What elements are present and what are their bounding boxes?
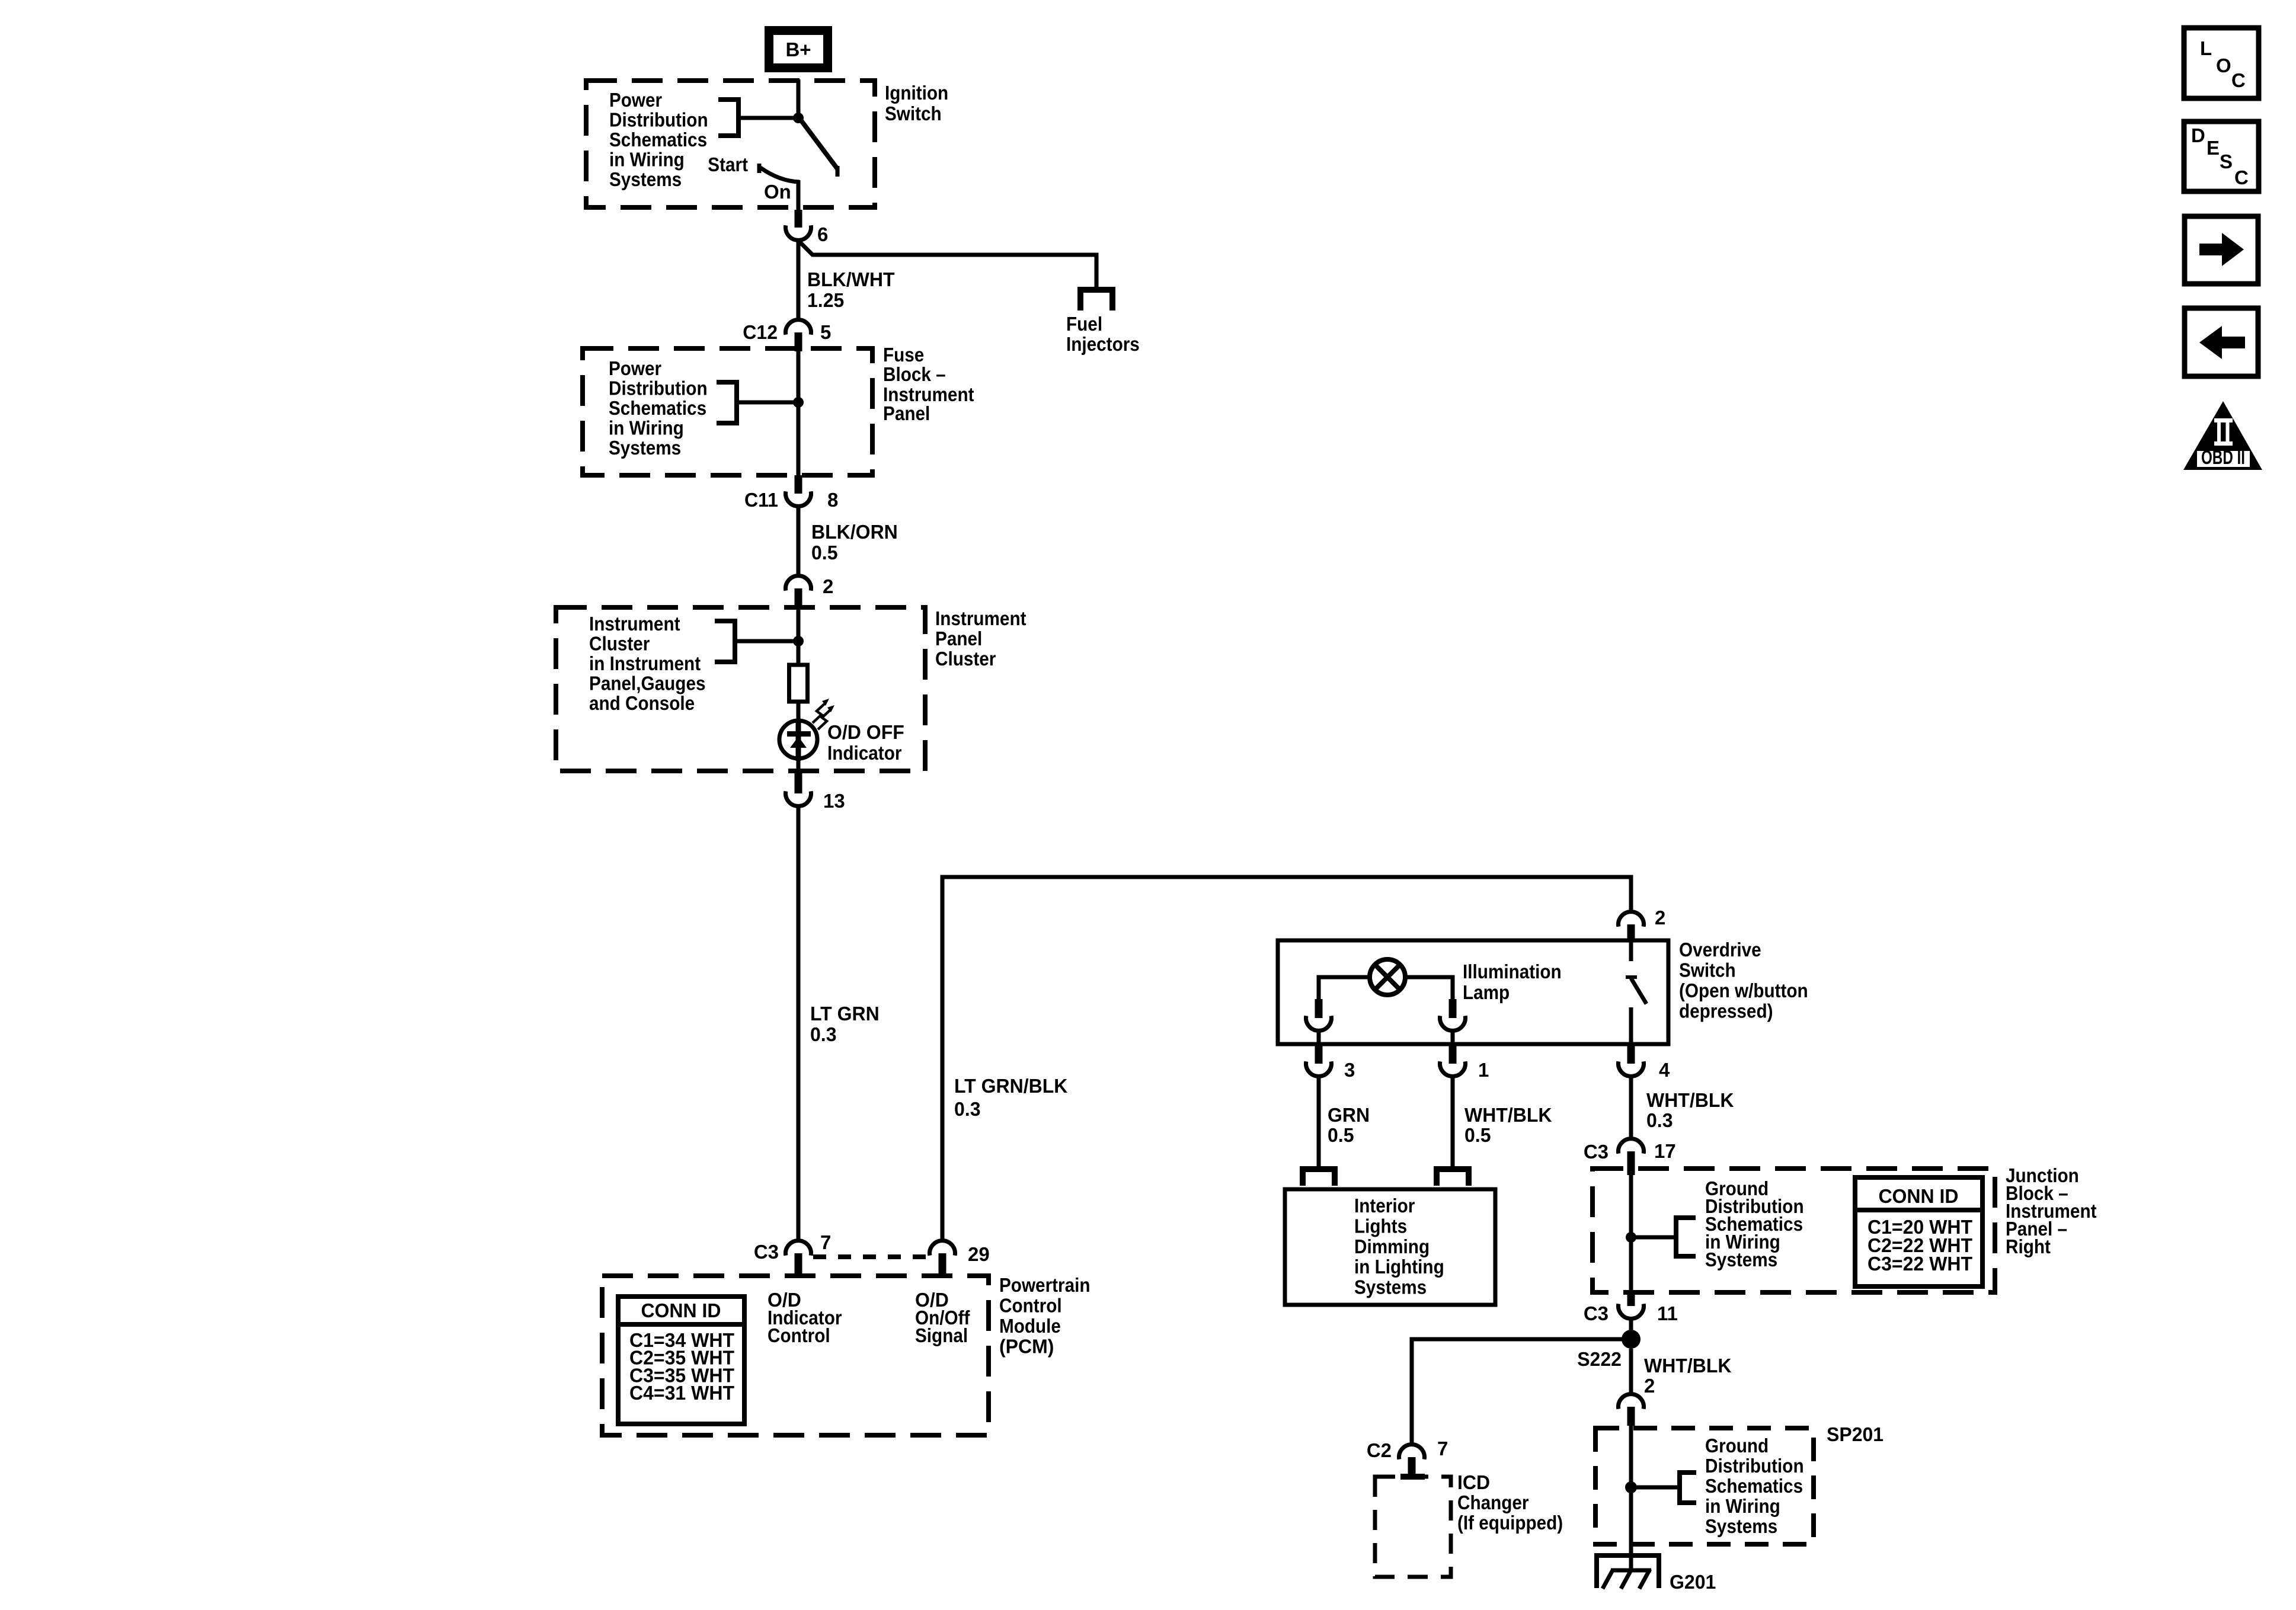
svg-text:in Instrument: in Instrument [589, 652, 701, 674]
label O/D On/Off Signal [915, 1289, 970, 1346]
ICD changer component box [1375, 1477, 1451, 1577]
lamp wiring to internal terminals [1319, 977, 1453, 999]
svg-text:Changer: Changer [1457, 1491, 1529, 1513]
svg-text:G201: G201 [1670, 1571, 1716, 1593]
svg-text:Switch: Switch [885, 103, 942, 124]
wire junction to bracket (SP201) [1631, 1486, 1680, 1490]
CONN ID table (PCM) [618, 1297, 744, 1424]
svg-text:Injectors: Injectors [1066, 333, 1140, 355]
wire BLK/ORN 0.5 to instrument cluster [797, 507, 801, 575]
svg-text:8: 8 [827, 489, 838, 511]
dashed link between pin 7 and pin 29 [813, 1254, 928, 1259]
junction dot (SP201) [1625, 1481, 1637, 1493]
svg-text:2: 2 [1655, 907, 1665, 929]
svg-text:D: D [2191, 124, 2205, 146]
svg-text:ICD: ICD [1457, 1471, 1490, 1493]
svg-text:Start: Start [708, 153, 748, 175]
svg-text:Module: Module [999, 1315, 1061, 1337]
svg-text:Instrument: Instrument [935, 607, 1027, 629]
svg-text:(If equipped): (If equipped) [1457, 1512, 1563, 1534]
icon DESC [2184, 121, 2259, 191]
svg-text:C3: C3 [1584, 1141, 1609, 1163]
wire LT GRN 0.3 from cluster to PCM [797, 806, 801, 1241]
svg-text:1.25: 1.25 [807, 289, 844, 311]
label O/D Indicator Control [768, 1289, 842, 1346]
power symbol B+ (battery feed) [765, 26, 832, 72]
svg-text:Panel,Gauges: Panel,Gauges [589, 673, 706, 694]
svg-text:in Wiring: in Wiring [609, 149, 685, 171]
start position arc [759, 164, 800, 182]
svg-text:0.5: 0.5 [1464, 1124, 1491, 1146]
svg-text:Illumination: Illumination [1463, 961, 1562, 982]
ignition switch blade [800, 119, 837, 177]
svg-text:C3: C3 [1584, 1302, 1609, 1324]
svg-text:C: C [2234, 167, 2249, 188]
reference text Ground Distribution Schematics in Wiring Systems (SP201) [1705, 1435, 1804, 1537]
svg-text:WHT/BLK: WHT/BLK [1464, 1104, 1552, 1126]
label Fuse Block - Instrument Panel [883, 344, 974, 424]
svg-text:(Open w/button: (Open w/button [1679, 980, 1808, 1001]
wire label BLK/ORN 0.5 [811, 521, 898, 564]
icon LOC [2184, 28, 2259, 98]
svg-text:Distribution: Distribution [1705, 1455, 1804, 1477]
svg-text:O/D OFF: O/D OFF [827, 721, 904, 743]
wire label LT GRN 0.3 [810, 1003, 880, 1045]
svg-text:Systems: Systems [609, 437, 681, 459]
svg-text:in Wiring: in Wiring [609, 417, 684, 439]
connector C2 pin 7 (ICD changer) [1399, 1445, 1425, 1480]
svg-text:13: 13 [823, 790, 845, 812]
junction block - instrument panel - right component box [1593, 1169, 1995, 1292]
svg-text:WHT/BLK: WHT/BLK [1644, 1355, 1732, 1377]
overdrive switch / illumination lamp component box [1278, 940, 1668, 1044]
switch pivot junction [793, 113, 804, 123]
svg-text:and Console: and Console [589, 692, 695, 714]
icon forward arrow [2185, 216, 2258, 284]
svg-text:Control: Control [768, 1324, 830, 1346]
svg-text:Cluster: Cluster [935, 648, 996, 670]
connector pin 2 (SP201 input) [1619, 1394, 1644, 1426]
wire through junction block [1629, 1175, 1633, 1294]
svg-text:29: 29 [968, 1243, 990, 1265]
svg-text:Systems: Systems [1705, 1515, 1777, 1537]
svg-text:On: On [764, 181, 791, 203]
svg-text:6: 6 [817, 223, 828, 245]
interior lights dimming component box [1285, 1189, 1495, 1305]
svg-text:in Lighting: in Lighting [1354, 1256, 1444, 1278]
wire label WHT/BLK 0.3 [1646, 1089, 1734, 1131]
svg-text:Distribution: Distribution [609, 109, 708, 131]
overdrive switch contacts and blade [1626, 940, 1646, 1044]
svg-text:0.5: 0.5 [1328, 1124, 1354, 1146]
svg-text:S: S [2220, 151, 2233, 172]
svg-text:7: 7 [1437, 1438, 1448, 1459]
wire label LT GRN/BLK 0.3 [954, 1075, 1068, 1120]
wire bracket to cluster wire [735, 639, 798, 644]
wire WHT/BLK 0.5 from pin 1 to interior lights dimming [1451, 1076, 1455, 1166]
svg-text:C4=31 WHT: C4=31 WHT [629, 1382, 734, 1404]
connector pin 6 (ignition switch output) [786, 210, 811, 240]
label Illumination Lamp [1463, 961, 1562, 1003]
svg-text:11: 11 [1657, 1302, 1678, 1324]
svg-text:E: E [2207, 137, 2220, 159]
connector pin 29 (O/D on/off signal input to PCM) [930, 1241, 955, 1275]
wire junction to bracket [1631, 1235, 1676, 1240]
reference bracket (fuse block power distribution) [717, 382, 737, 423]
wire LED to connector 13 [797, 761, 801, 772]
svg-text:C2: C2 [1367, 1439, 1392, 1461]
svg-text:Fuse: Fuse [883, 344, 924, 366]
label Fuel Injectors [1066, 313, 1140, 355]
svg-text:Fuel: Fuel [1066, 313, 1102, 335]
wire through SP201 [1629, 1426, 1633, 1570]
fuse block - instrument panel component box [583, 348, 872, 475]
svg-text:Cluster: Cluster [589, 633, 650, 655]
SP201 splice pack component box [1595, 1428, 1814, 1544]
label Instrument Panel Cluster [935, 607, 1027, 670]
ignition switch component box [586, 81, 875, 207]
svg-text:0.3: 0.3 [954, 1098, 981, 1120]
lamp terminal connector right (in box) [1440, 999, 1466, 1044]
svg-text:WHT/BLK: WHT/BLK [1646, 1089, 1734, 1111]
svg-text:Panel: Panel [883, 402, 930, 424]
wire label WHT/BLK 0.5 [1464, 1104, 1552, 1146]
wire BLK/WHT from connector 6 down to C12 [797, 239, 801, 320]
reference bracket (SP201 ground distribution) [1680, 1473, 1696, 1503]
icon back arrow [2185, 308, 2258, 376]
svg-text:Lamp: Lamp [1463, 981, 1510, 1003]
svg-text:Block –: Block – [883, 363, 946, 385]
wire GRN 0.5 from pin 3 to interior lights dimming [1317, 1076, 1321, 1166]
svg-text:7: 7 [820, 1231, 831, 1253]
svg-text:Systems: Systems [609, 168, 682, 190]
wire from B+ into ignition switch [797, 79, 801, 118]
junction dot (junction block) [1626, 1232, 1636, 1243]
svg-text:in Wiring: in Wiring [1705, 1495, 1780, 1517]
svg-text:Schematics: Schematics [1705, 1475, 1803, 1497]
terminal fork left (interior lights) [1303, 1169, 1335, 1186]
svg-text:O: O [2216, 55, 2231, 76]
wire bracket to fuse wire [737, 401, 798, 405]
svg-text:Powertrain: Powertrain [999, 1274, 1091, 1296]
label Ignition Switch [885, 82, 948, 124]
svg-text:Distribution: Distribution [609, 377, 708, 399]
svg-text:C12: C12 [743, 321, 778, 343]
svg-text:C: C [2231, 69, 2246, 91]
svg-text:LT GRN/BLK: LT GRN/BLK [954, 1075, 1068, 1097]
branch wire to fuel injectors [799, 241, 1096, 287]
CONN ID table (junction block) [1855, 1177, 1982, 1286]
wire cluster input to resistor [797, 609, 801, 665]
svg-text:17: 17 [1654, 1140, 1676, 1162]
icon OBD II [2183, 401, 2262, 470]
connector C3 pin 17 (junction block input) [1619, 1139, 1644, 1175]
connector C11 pin 8 (fuse block output) [786, 475, 811, 506]
svg-text:C3: C3 [754, 1241, 779, 1263]
connector pin 2 (instrument cluster input) [786, 576, 811, 609]
wire label WHT/BLK 2 [1644, 1355, 1732, 1397]
reference text Power Distribution Schematics in Wiring Systems (fuse block) [609, 357, 708, 459]
label Powertrain Control Module (PCM) [999, 1274, 1091, 1358]
wire through fuse block [797, 351, 801, 475]
svg-text:CONN ID: CONN ID [1878, 1185, 1958, 1207]
svg-text:Power: Power [609, 89, 662, 111]
junction in cluster [793, 636, 804, 646]
reference bracket (junction block ground distribution) [1676, 1218, 1696, 1256]
illumination lamp [1370, 959, 1405, 995]
svg-text:Overdrive: Overdrive [1679, 939, 1761, 961]
svg-text:Systems: Systems [1705, 1249, 1777, 1270]
resistor (cluster indicator dropping resistor) [789, 665, 808, 702]
svg-text:Switch: Switch [1679, 959, 1736, 981]
svg-text:BLK/WHT: BLK/WHT [807, 268, 895, 290]
junction in fuse block [793, 397, 804, 408]
wire label GRN 0.5 [1328, 1104, 1370, 1146]
label Interior Lights Dimming in Lighting Systems [1354, 1195, 1444, 1298]
reference text Power Distribution Schematics in Wiring Systems (ignition) [609, 89, 708, 190]
reference text Instrument Cluster in Instrument Panel,Gauges and Console [589, 613, 706, 714]
svg-text:B+: B+ [785, 39, 811, 60]
reference bracket (ignition power distribution) [718, 100, 738, 136]
label ICD Changer (If equipped) [1457, 1471, 1563, 1534]
wire On contact down to connector 6 [797, 180, 801, 211]
label Junction Block - Instrument Panel - Right [2006, 1164, 2097, 1257]
wire resistor to LED [797, 702, 801, 721]
wire WHT/BLK 0.3 to junction block [1629, 1076, 1633, 1138]
svg-text:C11: C11 [744, 489, 778, 511]
svg-text:Dimming: Dimming [1354, 1235, 1430, 1257]
svg-text:3: 3 [1344, 1059, 1355, 1081]
svg-text:0.3: 0.3 [1646, 1109, 1673, 1131]
LED O/D OFF indicator [779, 721, 817, 761]
svg-text:Interior: Interior [1354, 1195, 1415, 1217]
connector pin 4 (overdrive switch output) [1619, 1046, 1644, 1076]
svg-text:4: 4 [1659, 1059, 1670, 1081]
svg-text:Indicator: Indicator [827, 742, 902, 764]
svg-text:C3=22 WHT: C3=22 WHT [1868, 1253, 1972, 1275]
svg-text:Schematics: Schematics [609, 129, 707, 151]
svg-text:Power: Power [609, 357, 661, 379]
svg-text:Schematics: Schematics [609, 397, 706, 419]
svg-text:depressed): depressed) [1679, 1000, 1773, 1022]
svg-text:2: 2 [1644, 1375, 1655, 1397]
svg-text:Lights: Lights [1354, 1215, 1407, 1237]
svg-text:2: 2 [823, 575, 833, 597]
terminal fork right (interior lights) [1437, 1169, 1469, 1186]
svg-text:0.5: 0.5 [811, 542, 838, 564]
reference text Ground Distribution Schematics in Wiring Systems (junction block) [1705, 1177, 1804, 1270]
svg-text:5: 5 [820, 321, 831, 343]
label Overdrive Switch (Open w/button depressed) [1679, 939, 1808, 1022]
svg-text:Systems: Systems [1354, 1276, 1427, 1298]
connector pin 1 (lamp dimming side) [1440, 1046, 1466, 1076]
branch wire from S222 to ICD changer [1412, 1339, 1631, 1444]
svg-text:LT GRN: LT GRN [810, 1003, 880, 1025]
svg-text:GRN: GRN [1328, 1104, 1370, 1126]
svg-text:CONN ID: CONN ID [641, 1299, 721, 1321]
svg-text:L: L [2200, 37, 2212, 59]
svg-text:(PCM): (PCM) [999, 1336, 1054, 1358]
label O/D OFF Indicator [827, 721, 904, 764]
wire bracket to switch pivot [738, 116, 800, 120]
svg-text:Panel: Panel [935, 628, 982, 649]
connector C3 pin 7 (O/D indicator control input to PCM) [786, 1241, 811, 1275]
svg-text:1: 1 [1478, 1059, 1489, 1081]
wire label BLK/WHT 1.25 [807, 268, 895, 311]
powertrain control module (PCM) component box [602, 1276, 989, 1435]
svg-text:OBD II: OBD II [2201, 446, 2245, 468]
svg-text:SP201: SP201 [1827, 1423, 1884, 1445]
connector C3 pin 11 (junction block output) [1619, 1294, 1644, 1318]
svg-text:Right: Right [2006, 1235, 2051, 1257]
wire WHT/BLK 2 from S222 to SP201 [1629, 1349, 1633, 1394]
connector C12 pin 5 (fuse block input) [786, 320, 811, 351]
instrument panel cluster component box [556, 607, 925, 771]
ground symbol G201 [1597, 1555, 1659, 1589]
wire LT GRN/BLK 0.3 from PCM pin 29 up and over to overdrive switch [942, 877, 1631, 1241]
wire C3 11 to splice S222 [1629, 1318, 1633, 1339]
connector pin 2 (overdrive switch input) [1619, 912, 1644, 941]
fuel injectors terminal fork [1080, 290, 1112, 311]
connector pin 13 (cluster output) [786, 772, 811, 806]
svg-text:S222: S222 [1577, 1348, 1622, 1370]
LED light arrows [813, 699, 834, 729]
svg-text:Instrument: Instrument [589, 613, 680, 635]
svg-text:BLK/ORN: BLK/ORN [811, 521, 898, 543]
connector pin 3 (lamp ground side) [1306, 1046, 1332, 1076]
svg-text:Ignition: Ignition [885, 82, 948, 104]
splice S222 [1622, 1330, 1641, 1349]
svg-text:0.3: 0.3 [810, 1023, 837, 1045]
reference bracket (instrument cluster) [715, 621, 735, 662]
svg-text:Ground: Ground [1705, 1435, 1769, 1457]
lamp terminal connector left (in box) [1306, 999, 1332, 1044]
svg-text:Signal: Signal [915, 1324, 968, 1346]
svg-text:Control: Control [999, 1295, 1062, 1317]
